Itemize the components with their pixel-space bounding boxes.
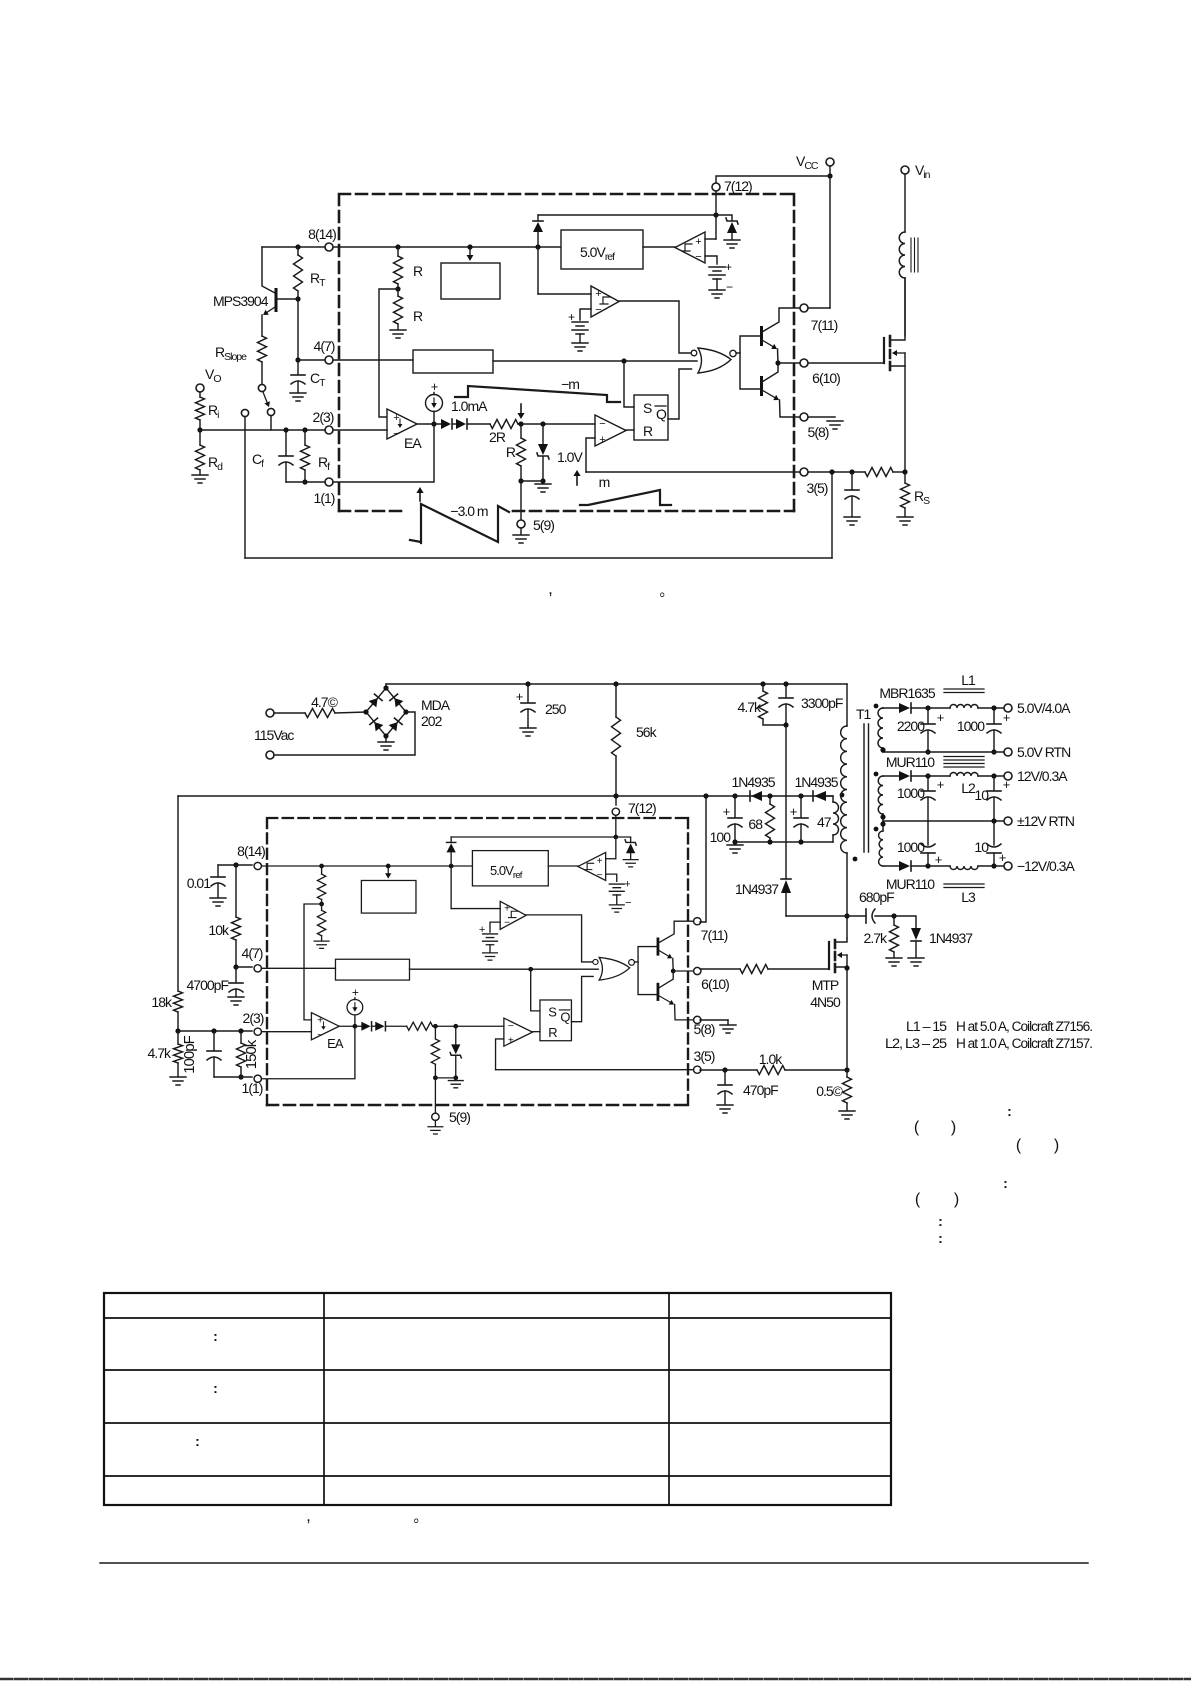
svg-text:115Vac: 115Vac: [254, 727, 294, 743]
ground 4700pF: [228, 997, 244, 1005]
wire 4(7) ext f2: [236, 966, 252, 968]
switch throw: [267, 408, 274, 415]
wire VCC down to 7(11): [829, 176, 831, 308]
terminal Vin: [901, 166, 909, 174]
figure 2: IC internals: [254, 808, 701, 1134]
svg-text:1N4937: 1N4937: [735, 881, 779, 897]
ground 470pF: [717, 1105, 733, 1113]
svg-text:−m: −m: [561, 376, 579, 392]
ground bridge: [385, 736, 387, 741]
resistor 18k: [177, 796, 179, 991]
svg-text:+: +: [1003, 710, 1010, 725]
capacitor 3300pF snubber: [785, 684, 787, 697]
svg-text:4.7k: 4.7k: [738, 699, 762, 715]
svg-text:MUR110: MUR110: [886, 876, 935, 892]
inductor Vin choke: [904, 174, 906, 232]
svg-text:R: R: [413, 263, 423, 279]
IC border bottom fig2: [267, 1104, 688, 1107]
bridge rectifier MDA202: [366, 688, 406, 736]
wire B+ rail: [385, 684, 387, 688]
ground RS: [897, 517, 913, 525]
svg-text:0.5©: 0.5©: [816, 1083, 843, 1099]
svg-text:1(1): 1(1): [314, 490, 335, 506]
resistor gate drive: [700, 968, 740, 970]
terminal 5V RTN: [1004, 748, 1012, 756]
svg-text:MTP: MTP: [812, 977, 839, 993]
svg-text:7(11): 7(11): [811, 317, 838, 333]
resistor RT: [297, 247, 299, 255]
svg-text:MPS3904: MPS3904: [213, 293, 269, 309]
svg-text:H at 1.0 A, Coilcraft Z7157.: H at 1.0 A, Coilcraft Z7157.: [956, 1036, 1092, 1051]
resistor 150k: [240, 1031, 242, 1043]
capacitor 100pF: [213, 1031, 215, 1050]
wire VCC to 7(12): [716, 176, 830, 183]
svg-text:−12V/0.3A: −12V/0.3A: [1017, 858, 1075, 874]
ramp m waveform: [580, 490, 671, 505]
terminal 115Vac neutral: [266, 751, 274, 759]
svg-text:150k: 150k: [243, 1039, 260, 1069]
svg-text:): ): [954, 1191, 959, 1208]
svg-text:1N4935: 1N4935: [794, 774, 838, 790]
svg-text:。: 。: [660, 583, 673, 599]
phase dot w1: [874, 704, 879, 709]
resistor 1.0k: [757, 1066, 785, 1075]
wire 3(5) f2: [700, 1069, 757, 1071]
resistor RSlope: [261, 315, 263, 336]
wire Vcc gnd rail: [735, 841, 833, 843]
ground 4.7k: [170, 1077, 186, 1085]
ground 0.5 ohm: [839, 1111, 855, 1119]
diode 1N4935 A: [750, 791, 762, 801]
svg-text::: :: [1007, 1103, 1011, 1119]
inductor L3: [950, 866, 978, 870]
resistor 4.7k snubber: [762, 684, 764, 691]
wire Vcc rail: [178, 795, 833, 797]
svg-text:12V/0.3A: 12V/0.3A: [1017, 768, 1068, 784]
svg-text:4N50: 4N50: [810, 994, 841, 1010]
svg-text:3300pF: 3300pF: [801, 695, 843, 711]
svg-text:1N4935: 1N4935: [731, 774, 775, 790]
switch arm: [263, 392, 267, 402]
wire 5(8) ground fig1: [808, 416, 835, 418]
resistor 2.7k: [893, 916, 895, 925]
ground 1N4937 clamp: [908, 958, 924, 966]
svg-text:。: 。: [414, 1509, 427, 1525]
inductor L1: [950, 705, 978, 709]
svg-text:7(12): 7(12): [628, 800, 656, 816]
svg-text:,: ,: [306, 1506, 310, 1525]
svg-text:): ): [1054, 1137, 1059, 1154]
resistor RS: [904, 472, 906, 483]
primary winding T1: [846, 684, 848, 726]
svg-text:L1 – 15: L1 – 15: [906, 1019, 947, 1034]
svg-text:250: 250: [545, 701, 567, 717]
svg-text:10k: 10k: [208, 922, 230, 938]
svg-text:+: +: [999, 850, 1006, 865]
svg-text::: :: [1003, 1175, 1007, 1191]
capacitor 1000uF -12V: [927, 821, 929, 845]
svg-text:18k: 18k: [151, 994, 173, 1010]
ramp -3.0m waveform: [410, 504, 509, 543]
T1 core: [864, 724, 869, 852]
capacitor 680pF: [786, 915, 847, 917]
capacitor 100uF Vcc: [734, 796, 736, 817]
resistor 68: [769, 796, 771, 804]
svg-text::: :: [213, 1380, 217, 1396]
svg-text:2200: 2200: [897, 718, 925, 734]
svg-text:5(8): 5(8): [808, 424, 829, 440]
svg-text:): ): [951, 1119, 956, 1136]
svg-text:1.0k: 1.0k: [759, 1051, 783, 1067]
resistor 56k: [615, 684, 617, 717]
svg-text:R: R: [413, 308, 423, 324]
capacitor 1000uF 5V: [993, 708, 995, 723]
svg-text:4.7k: 4.7k: [148, 1045, 172, 1061]
svg-text:L1: L1: [961, 672, 976, 688]
svg-text:T1: T1: [856, 706, 872, 722]
wire bridge return: [274, 712, 415, 755]
svg-text:6(10): 6(10): [812, 370, 840, 386]
svg-text:470pF: 470pF: [743, 1082, 778, 1098]
svg-text:6(10): 6(10): [701, 976, 729, 992]
svg-text:100pF: 100pF: [181, 1035, 198, 1073]
diode MBR1635: [883, 707, 899, 709]
svg-text:68: 68: [748, 816, 763, 832]
resistor Rd: [199, 430, 201, 445]
svg-text:1000: 1000: [897, 785, 925, 801]
svg-text:47: 47: [817, 814, 832, 830]
svg-text:4(7): 4(7): [242, 945, 263, 961]
svg-text:1(1): 1(1): [242, 1080, 263, 1096]
terminal 5.0V: [1004, 704, 1012, 712]
wire 3(5) ext: [808, 471, 865, 473]
capacitor Cf: [285, 430, 287, 455]
wire +-12V RTN: [883, 820, 1004, 822]
page bottom dashed line: [0, 1678, 1191, 1681]
resistor 4.7k divider: [177, 1031, 179, 1044]
aux winding T1: [833, 802, 839, 835]
svg-text:5(9): 5(9): [449, 1109, 470, 1125]
svg-text:+: +: [516, 689, 523, 704]
capacitor 10uF 12V: [993, 776, 995, 790]
ground 100uF: [727, 845, 743, 853]
ground 2.7k: [886, 958, 902, 966]
phase dot w2: [874, 772, 879, 777]
ground Rd: [192, 475, 208, 483]
inductor L2: [950, 773, 978, 777]
diode 1N4935 B: [813, 791, 826, 801]
capacitor 0.01 ref bypass: [218, 864, 236, 866]
svg-text:+: +: [1003, 777, 1010, 792]
svg-text:8(14): 8(14): [308, 226, 336, 242]
wire feedback bottom: [245, 557, 832, 559]
wire RT to 4(7): [297, 299, 299, 360]
wire 5(8) ground f2: [700, 1019, 728, 1021]
wire 8(14) ext rail: [262, 246, 325, 248]
table grid: [104, 1293, 891, 1505]
capacitor 250uF bulk: [527, 684, 529, 702]
ground 0.01: [210, 898, 226, 906]
svg-text:±12V RTN: ±12V RTN: [1017, 813, 1074, 829]
svg-text::: :: [938, 1213, 942, 1229]
wire 7(11) riser f2: [700, 796, 706, 922]
svg-text:m: m: [599, 474, 610, 490]
svg-text:4(7): 4(7): [314, 338, 335, 354]
svg-text:+: +: [790, 804, 797, 819]
svg-text:+: +: [723, 804, 730, 819]
svg-text:2R: 2R: [489, 429, 506, 445]
ground CT: [290, 393, 306, 401]
footer rule: [100, 1562, 1088, 1564]
svg-text:+: +: [937, 710, 944, 725]
phase dot primary: [853, 857, 858, 862]
diode 1N4937 clamp: [911, 928, 921, 941]
svg-text:MDA: MDA: [421, 697, 451, 713]
svg-text:MBR1635: MBR1635: [879, 685, 935, 701]
svg-text:202: 202: [421, 713, 443, 729]
svg-text:2.7k: 2.7k: [864, 930, 888, 946]
capacitor 470pF: [724, 1070, 726, 1084]
svg-text:,: ,: [548, 579, 552, 598]
svg-text:7(11): 7(11): [701, 927, 728, 943]
phase dot aux: [840, 793, 845, 798]
svg-text:4.7©: 4.7©: [311, 694, 338, 710]
svg-text:56k: 56k: [636, 724, 658, 740]
terminal VO: [196, 384, 204, 392]
svg-text:1000: 1000: [957, 718, 985, 734]
svg-text:+: +: [937, 777, 944, 792]
secondary winding 5V: [882, 707, 884, 709]
MOSFET fig1: [883, 338, 885, 363]
capacitor 10uF -12V: [993, 821, 995, 845]
svg-text:5(9): 5(9): [533, 517, 554, 533]
svg-text:L2, L3 – 25: L2, L3 – 25: [885, 1036, 947, 1051]
MOSFET MTP4N50: [828, 942, 830, 969]
wire 2(3) ext f2: [178, 1030, 252, 1032]
resistor 0.5 ohm sense: [846, 1070, 848, 1077]
diode MUR110 B: [883, 865, 899, 867]
terminal 12V RTN: [1004, 817, 1012, 825]
svg-text:L3: L3: [961, 889, 976, 905]
resistor CS filter: [865, 468, 893, 477]
svg-text::: :: [938, 1230, 942, 1246]
diode 1N4937 snubber: [785, 725, 787, 878]
svg-text:7(12): 7(12): [724, 178, 752, 194]
capacitor 47uF: [800, 796, 802, 817]
capacitor 4700pF: [235, 967, 237, 982]
svg-text:MUR110: MUR110: [886, 754, 935, 770]
wire Vcc rail to 7(12): [615, 796, 617, 805]
svg-text::: :: [213, 1328, 217, 1344]
svg-text:H at 5.0 A, Coilcraft Z7156.: H at 5.0 A, Coilcraft Z7156.: [956, 1019, 1092, 1034]
wire aux winding: [826, 796, 833, 802]
terminal -12V: [1004, 862, 1012, 870]
switch pole: [258, 384, 265, 391]
capacitor CT: [297, 360, 299, 374]
svg-text:+: +: [935, 852, 942, 867]
svg-text:3(5): 3(5): [807, 480, 828, 496]
terminal VCC: [826, 158, 834, 166]
wire 5V RTN: [883, 751, 1004, 753]
terminal 115Vac hot: [266, 709, 274, 717]
resistor Rf: [304, 430, 306, 445]
svg-text:1000: 1000: [897, 839, 925, 855]
svg-text:2(3): 2(3): [313, 409, 334, 425]
resistor 10k: [235, 865, 237, 917]
secondary winding 12V: [878, 776, 883, 814]
resistor Ri: [199, 392, 201, 397]
arrow -3.0m up: [419, 493, 421, 501]
terminal feedback: [241, 409, 248, 416]
svg-text:3(5): 3(5): [694, 1048, 715, 1064]
transistor MPS3904: [275, 288, 278, 312]
wire Cf/Rf bottom to pin 1(1): [286, 481, 325, 483]
svg-text:0.01: 0.01: [187, 875, 211, 891]
wire 1(1) ext f2: [214, 1076, 252, 1078]
ramp -m waveform: [455, 386, 620, 402]
svg-text:10: 10: [974, 787, 989, 803]
svg-text:5.0V RTN: 5.0V RTN: [1017, 744, 1070, 760]
svg-text:1.0mA: 1.0mA: [451, 398, 488, 414]
svg-text:5.0V/4.0A: 5.0V/4.0A: [1017, 700, 1071, 716]
arrow -m to junction: [520, 404, 522, 413]
svg-text:R: R: [506, 444, 516, 460]
terminal 12V: [1004, 772, 1012, 780]
svg-text:5(8): 5(8): [694, 1021, 715, 1037]
capacitor 1000uF 12V: [927, 776, 929, 790]
svg-text:100: 100: [710, 829, 732, 845]
svg-text:1.0V: 1.0V: [557, 449, 583, 465]
figure 1: IC internals: [325, 183, 808, 543]
ground 3(5) cap: [844, 517, 860, 525]
svg-text:4700pF: 4700pF: [187, 977, 229, 993]
wire Vo node to pin 2(3): [200, 429, 325, 431]
svg-text:−3.0 m: −3.0 m: [450, 503, 488, 519]
arrow m up: [576, 476, 578, 485]
IC border bottom fig1 (gap at ramp): [339, 510, 407, 513]
wire feedback down: [244, 417, 246, 558]
svg-text:1N4937: 1N4937: [929, 930, 973, 946]
svg-text:8(14): 8(14): [237, 843, 265, 859]
phase dot w3: [874, 827, 879, 832]
svg-text::: :: [195, 1433, 199, 1449]
svg-text:2(3): 2(3): [243, 1010, 264, 1026]
ground 250uF: [520, 728, 536, 736]
secondary winding -12V: [879, 831, 883, 866]
diode MUR110 A: [883, 775, 899, 777]
resistor 4.7 ohm inrush: [274, 712, 305, 714]
svg-text:10: 10: [974, 839, 989, 855]
capacitor 3(5) filter: [851, 472, 853, 489]
capacitor 2200uF: [927, 708, 929, 723]
